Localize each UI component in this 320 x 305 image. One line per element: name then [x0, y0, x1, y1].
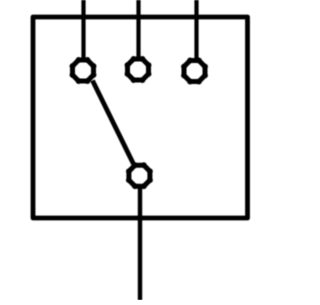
switch body box S1: [33, 17, 248, 218]
terminal contact 1: [70, 57, 97, 84]
switch lever: [93, 81, 134, 165]
wire to terminal 3: [194, 0, 198, 60]
common contact: [126, 162, 153, 189]
terminal contact 2: [125, 56, 152, 83]
terminal contact 3: [181, 58, 208, 85]
wire from common terminal: [138, 187, 142, 300]
wire to terminal 2: [136, 0, 140, 58]
wire to terminal 1: [81, 0, 85, 59]
